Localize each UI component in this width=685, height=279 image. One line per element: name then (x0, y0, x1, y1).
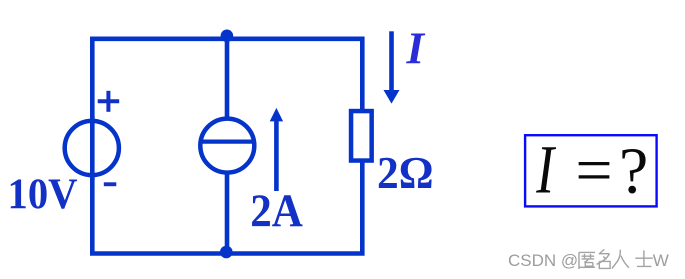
junction top node (221, 30, 234, 43)
annotation box I = ? (525, 135, 657, 206)
svg-text:=: = (575, 134, 612, 207)
wire outer loop (top, left, bottom, right segments) (92, 39, 362, 254)
current arrow I (384, 31, 400, 103)
arrow 2A direction (270, 108, 283, 191)
svg-text:W: W (653, 251, 669, 270)
svg-text:I: I (535, 132, 556, 208)
glyph 匿 (579, 252, 595, 269)
resistor 2Ω (351, 111, 372, 161)
glyph 人 (612, 250, 629, 269)
svg-text:2A: 2A (250, 185, 303, 237)
svg-text:2Ω: 2Ω (377, 147, 434, 198)
watermark CSDN @匿名人士W (508, 249, 669, 269)
annotation text I = ? (535, 132, 648, 208)
svg-text:?: ? (619, 134, 648, 207)
polarity - of voltage source (104, 182, 117, 186)
wire middle branch (225, 39, 230, 254)
wire through voltage source (90, 116, 95, 180)
voltage source 10V (circle symbol) (65, 121, 119, 175)
svg-text:I: I (406, 23, 426, 73)
glyph 士 (635, 250, 653, 266)
glyph 名 (597, 249, 611, 268)
junction bottom node (220, 246, 233, 259)
svg-text:10V: 10V (8, 171, 78, 218)
svg-text:CSDN @: CSDN @ (508, 251, 578, 270)
current source bar (201, 139, 254, 143)
polarity + of voltage source (98, 91, 120, 112)
current source 2A (circle symbol) (200, 119, 254, 173)
